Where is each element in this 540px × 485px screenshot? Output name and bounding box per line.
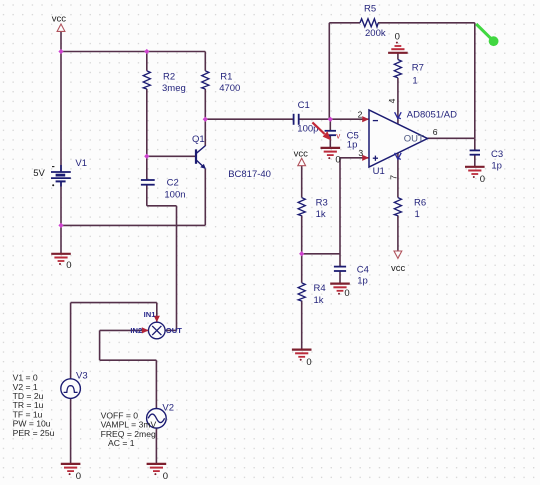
- power flag vcc (top left): [52, 14, 67, 32]
- resistor R4: [298, 283, 326, 306]
- power flag vcc (above R3): [294, 149, 309, 166]
- svg-text:0: 0: [395, 32, 400, 43]
- capacitor C2: [141, 177, 186, 200]
- junction node at R2 top: [144, 49, 149, 54]
- voltage marker v at C5: [312, 122, 340, 140]
- wire node to C1: [205, 118, 293, 120]
- svg-text:3: 3: [358, 148, 363, 158]
- svg-text:BC817-40: BC817-40: [228, 169, 271, 180]
- svg-text:1p: 1p: [491, 160, 502, 171]
- op-amp U1 AD8051/AD: [369, 109, 457, 177]
- svg-text:R1: R1: [220, 71, 232, 82]
- svg-text:R4: R4: [314, 283, 326, 294]
- svg-text:2: 2: [358, 109, 363, 119]
- resistor R7: [394, 60, 424, 87]
- wire vcc1 stub to top rail: [60, 32, 62, 52]
- capacitor C5: [325, 131, 359, 151]
- svg-text:6: 6: [433, 127, 438, 137]
- wire IN2 left drop: [99, 330, 101, 360]
- svg-text:4: 4: [387, 98, 397, 103]
- svg-text:v: v: [336, 132, 340, 141]
- wire C2 bottom stub: [146, 185, 148, 206]
- svg-text:0: 0: [306, 357, 311, 368]
- wire R1 top lead: [204, 52, 206, 71]
- mult IN1 arrow: [154, 316, 160, 322]
- transistor Q1: [192, 134, 271, 180]
- resistor R1: [202, 71, 241, 94]
- wire mult OUT stub: [165, 329, 176, 331]
- ground 0 below V2: [147, 464, 168, 482]
- wire emitter drop: [204, 169, 206, 226]
- resistor R6: [394, 197, 426, 220]
- svg-text:0: 0: [163, 471, 168, 482]
- ground 0 below C5: [321, 148, 341, 166]
- multiplier MULT (IN1,IN2,OUT): [149, 322, 166, 339]
- junction node at V1 bottom rail: [58, 223, 63, 228]
- resistor R5 (horizontal): [360, 4, 386, 39]
- resistor R3: [298, 197, 328, 220]
- wire C4 bottom stub: [339, 271, 341, 283]
- svg-text:AD8051/AD: AD8051/AD: [407, 109, 457, 120]
- svg-text:OUT: OUT: [404, 134, 424, 145]
- svg-text:C1: C1: [298, 100, 310, 111]
- wire C2 top stub: [146, 156, 148, 179]
- pin 7 power arrow: [395, 153, 402, 160]
- svg-text:1p: 1p: [357, 276, 368, 287]
- green probe at output: [476, 24, 498, 46]
- svg-text:1: 1: [415, 209, 420, 220]
- wire R7 to pin4: [397, 78, 399, 124]
- svg-text:C2: C2: [167, 177, 179, 188]
- ground 0 below C4: [330, 284, 350, 300]
- svg-text:vcc: vcc: [391, 263, 406, 274]
- svg-text:AC = 1: AC = 1: [108, 438, 135, 448]
- svg-text:0: 0: [480, 174, 485, 185]
- ground 0 below C3: [465, 167, 485, 185]
- wire vcc2 stub to R3: [301, 166, 303, 198]
- wire R4 bottom lead to ground: [301, 301, 303, 350]
- svg-text:5V: 5V: [33, 168, 45, 179]
- wire pin3: [340, 157, 369, 159]
- svg-text:IN2: IN2: [130, 326, 142, 335]
- svg-text:V2: V2: [162, 403, 174, 414]
- svg-text:1k: 1k: [316, 209, 326, 220]
- pin 2 arrow: [362, 116, 369, 122]
- svg-text:C4: C4: [357, 265, 369, 276]
- wire R5 left leg: [328, 23, 330, 119]
- svg-text:4700: 4700: [219, 83, 240, 94]
- svg-text:0: 0: [76, 471, 81, 482]
- svg-text:3meg: 3meg: [162, 83, 186, 94]
- wire R2 bottom lead to base node: [146, 89, 148, 156]
- svg-text:0: 0: [66, 260, 71, 271]
- wire C5 bottom stub: [329, 136, 331, 148]
- ground 0 below V3: [61, 464, 81, 482]
- svg-text:R7: R7: [412, 62, 424, 73]
- source V2 (sine): [147, 403, 174, 429]
- wire R1 bottom lead: [204, 89, 206, 119]
- capacitor C4: [334, 265, 369, 287]
- pin 3 arrow: [362, 155, 369, 161]
- wire bottom rail: [61, 224, 205, 226]
- svg-text:1: 1: [412, 76, 417, 87]
- svg-text:R3: R3: [316, 197, 328, 208]
- svg-text:0: 0: [335, 155, 340, 166]
- wire gnd0 stub to R7: [397, 53, 399, 60]
- wire C2 bottom horizontal: [147, 205, 177, 207]
- wire C1 to pin2 node: [299, 118, 331, 120]
- wire R3 node to C4 node: [302, 253, 340, 255]
- capacitor C1 (horizontal): [294, 100, 319, 135]
- wire IN1 drop: [156, 303, 158, 322]
- wire IN2 horizontal: [100, 329, 149, 331]
- svg-text:PER = 25u: PER = 25u: [13, 428, 55, 438]
- junction node at R2 bottom / base / C2: [144, 154, 149, 159]
- svg-text:7: 7: [389, 175, 399, 180]
- svg-text:U1: U1: [373, 166, 385, 177]
- svg-text:0: 0: [344, 288, 349, 299]
- junction node at R1 bottom / collector: [203, 117, 208, 122]
- wire V2 top riser: [155, 360, 157, 408]
- svg-text:100n: 100n: [164, 189, 185, 200]
- wire IN2 lower horizontal: [100, 359, 157, 361]
- wire R5 right: [378, 22, 475, 24]
- wire collector drop: [204, 119, 206, 146]
- source V3 (pulse): [61, 370, 88, 398]
- power flag vcc (below R6, inverted): [391, 251, 406, 274]
- svg-text:Q1: Q1: [192, 134, 205, 145]
- resistor R2: [143, 71, 186, 94]
- wire R5 left: [329, 22, 360, 24]
- svg-text:vcc: vcc: [52, 14, 67, 25]
- V2 parameters: [101, 410, 157, 448]
- svg-text:vcc: vcc: [294, 149, 309, 160]
- junction node at R3 / R4 / C4: [299, 251, 304, 256]
- wire right drop: [474, 23, 476, 139]
- svg-text:C3: C3: [491, 149, 503, 160]
- wire C5 top stub: [329, 119, 331, 130]
- wire V3 top riser: [70, 303, 72, 379]
- wire pin2: [330, 118, 369, 120]
- svg-text:V3: V3: [76, 370, 88, 381]
- wire opamp output: [428, 137, 475, 139]
- capacitor C3: [470, 149, 504, 172]
- junction node at vcc/V1 top rail: [58, 49, 63, 54]
- wire IN1 horizontal: [71, 302, 157, 304]
- wire mult OUT riser: [176, 206, 178, 331]
- svg-text:R5: R5: [364, 4, 376, 15]
- ground 0 below V1: [51, 254, 71, 271]
- wire top rail: [61, 51, 205, 53]
- wire pin7 to R6: [397, 153, 399, 197]
- svg-text:R2: R2: [163, 71, 175, 82]
- svg-text:1p: 1p: [347, 140, 358, 151]
- wire R4 top lead: [301, 254, 303, 283]
- svg-text:R6: R6: [414, 197, 426, 208]
- wire C3 top stub: [474, 138, 476, 150]
- svg-text:V1: V1: [75, 158, 87, 169]
- wire R6 to vcc3: [397, 215, 399, 250]
- svg-text:1k: 1k: [314, 295, 324, 306]
- wire pin3 drop to C4: [339, 158, 341, 266]
- ground 0 above R7 (inverted): [388, 32, 408, 53]
- svg-text:200k: 200k: [365, 28, 386, 39]
- junction node at C1 / R5 / pin2: [328, 117, 333, 122]
- mult IN2 arrow: [142, 327, 149, 333]
- wire V1 top: [60, 52, 62, 172]
- wire V3 bottom to ground: [70, 398, 72, 463]
- wire base: [147, 155, 195, 157]
- V3 parameters: [13, 373, 55, 438]
- battery V1: [33, 158, 87, 187]
- wire C3 bottom stub: [474, 155, 476, 166]
- svg-text:OUT: OUT: [166, 326, 182, 335]
- pin 4 power arrow: [395, 112, 402, 119]
- ground 0 below R4: [292, 350, 312, 368]
- wire R3 bottom lead: [301, 215, 303, 253]
- wire V1 bottom to ground: [60, 181, 62, 253]
- wire V2 bottom to ground: [155, 428, 157, 464]
- svg-text:IN1: IN1: [144, 310, 157, 319]
- wire R2 top lead: [146, 52, 148, 71]
